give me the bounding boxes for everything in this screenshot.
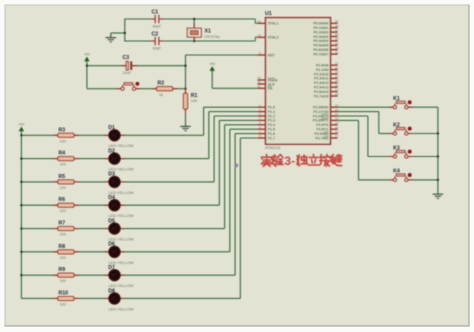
svg-text:24: 24 bbox=[335, 75, 339, 79]
svg-text:39: 39 bbox=[335, 20, 339, 24]
svg-text:100: 100 bbox=[60, 302, 66, 306]
svg-text:R8: R8 bbox=[59, 244, 66, 250]
svg-text:LED-YELLOW: LED-YELLOW bbox=[109, 306, 134, 311]
svg-text:38: 38 bbox=[335, 24, 339, 28]
svg-text:25: 25 bbox=[335, 79, 339, 83]
svg-text:R2: R2 bbox=[158, 80, 165, 86]
svg-text:37: 37 bbox=[335, 28, 339, 32]
svg-text:P0.0/AD0: P0.0/AD0 bbox=[313, 22, 328, 26]
svg-text:R4: R4 bbox=[59, 151, 66, 157]
svg-text:P2.0/A8: P2.0/A8 bbox=[316, 64, 329, 68]
svg-text:P2.5/A13: P2.5/A13 bbox=[314, 86, 329, 90]
svg-text:12: 12 bbox=[335, 112, 339, 116]
svg-text:27: 27 bbox=[335, 88, 339, 92]
svg-text:36: 36 bbox=[335, 33, 339, 37]
svg-text:P3.5/T1: P3.5/T1 bbox=[316, 128, 328, 132]
svg-text:D2: D2 bbox=[108, 148, 115, 154]
svg-text:P2.3/A11: P2.3/A11 bbox=[314, 77, 328, 81]
svg-text:30pF: 30pF bbox=[153, 25, 162, 29]
svg-text:D6: D6 bbox=[108, 242, 115, 248]
svg-text:22: 22 bbox=[335, 66, 339, 70]
svg-text:P3.1/TXD: P3.1/TXD bbox=[313, 110, 329, 114]
svg-text:P0.6/AD6: P0.6/AD6 bbox=[313, 48, 328, 52]
svg-text:13: 13 bbox=[335, 117, 339, 121]
svg-text:P0.3/AD3: P0.3/AD3 bbox=[313, 35, 328, 39]
svg-text:14: 14 bbox=[335, 121, 339, 125]
svg-text:P3.3/INT1: P3.3/INT1 bbox=[313, 119, 329, 123]
svg-text:CRYSTAL: CRYSTAL bbox=[204, 35, 220, 39]
svg-text:U1: U1 bbox=[265, 11, 272, 17]
svg-text:D3: D3 bbox=[108, 172, 115, 178]
svg-text:+5V: +5V bbox=[209, 62, 216, 66]
svg-text:D8: D8 bbox=[108, 288, 115, 294]
svg-text:5: 5 bbox=[259, 121, 261, 125]
svg-text:X1: X1 bbox=[205, 28, 211, 34]
svg-text:P2.7/A15: P2.7/A15 bbox=[314, 94, 329, 98]
svg-text:30pF: 30pF bbox=[153, 47, 162, 51]
svg-text:RST: RST bbox=[268, 53, 276, 57]
svg-text:P2.1/A9: P2.1/A9 bbox=[316, 68, 329, 72]
svg-text:10k: 10k bbox=[191, 99, 197, 103]
svg-text:9: 9 bbox=[259, 51, 261, 55]
svg-text:P0.1/AD1: P0.1/AD1 bbox=[313, 26, 328, 30]
svg-text:23: 23 bbox=[335, 70, 339, 74]
svg-text:P1.0: P1.0 bbox=[268, 106, 275, 110]
svg-text:C2: C2 bbox=[152, 31, 159, 37]
svg-text:3: 3 bbox=[259, 112, 261, 116]
svg-text:P0.7/AD7: P0.7/AD7 bbox=[313, 52, 328, 56]
svg-text:P1.5: P1.5 bbox=[268, 128, 275, 132]
svg-text:8: 8 bbox=[259, 134, 261, 138]
svg-text:11: 11 bbox=[335, 108, 338, 112]
svg-text:21: 21 bbox=[335, 61, 339, 65]
svg-text:18: 18 bbox=[257, 34, 261, 38]
svg-text:100: 100 bbox=[60, 186, 66, 190]
svg-text:P3.7/RD: P3.7/RD bbox=[315, 136, 329, 140]
svg-text:AT89C51: AT89C51 bbox=[265, 146, 281, 150]
svg-text:28: 28 bbox=[335, 92, 339, 96]
svg-text:4: 4 bbox=[259, 117, 261, 121]
svg-text:P2.2/A10: P2.2/A10 bbox=[314, 72, 329, 76]
svg-text:C3: C3 bbox=[123, 55, 130, 61]
svg-text:C1: C1 bbox=[152, 9, 159, 15]
svg-text:P2.6/A14: P2.6/A14 bbox=[314, 90, 329, 94]
svg-text:P1.6: P1.6 bbox=[268, 132, 275, 136]
svg-text:R10: R10 bbox=[59, 290, 69, 296]
svg-text:D1: D1 bbox=[108, 125, 115, 131]
svg-text:P3.4/T0: P3.4/T0 bbox=[316, 123, 328, 127]
svg-text:P0.4/AD4: P0.4/AD4 bbox=[313, 39, 328, 43]
svg-text:XTAL2: XTAL2 bbox=[268, 36, 279, 40]
svg-text:XTAL1: XTAL1 bbox=[268, 22, 279, 26]
svg-text:10uF: 10uF bbox=[123, 71, 132, 75]
svg-text:6: 6 bbox=[259, 125, 261, 129]
svg-text:P1.7: P1.7 bbox=[268, 136, 275, 140]
svg-text:34: 34 bbox=[335, 42, 339, 46]
svg-text:EA: EA bbox=[268, 87, 273, 91]
svg-text:R9: R9 bbox=[59, 267, 66, 273]
svg-text:P1.1: P1.1 bbox=[268, 110, 275, 114]
svg-text:D4: D4 bbox=[108, 195, 115, 201]
svg-text:3-: 3- bbox=[284, 154, 295, 168]
svg-text:16: 16 bbox=[335, 130, 339, 134]
svg-text:R3: R3 bbox=[59, 127, 66, 133]
svg-text:100: 100 bbox=[60, 139, 66, 143]
svg-text:R6: R6 bbox=[59, 197, 66, 203]
svg-text:+5V: +5V bbox=[84, 52, 91, 56]
svg-text:2: 2 bbox=[259, 108, 261, 112]
svg-text:P2.4/A12: P2.4/A12 bbox=[314, 81, 329, 85]
svg-text:100: 100 bbox=[60, 163, 66, 167]
svg-text:R5: R5 bbox=[59, 174, 66, 180]
svg-text:D7: D7 bbox=[108, 265, 115, 271]
svg-text:R7: R7 bbox=[59, 221, 66, 227]
svg-text:15: 15 bbox=[335, 125, 339, 129]
svg-text:P1.4: P1.4 bbox=[268, 123, 275, 127]
svg-text:10: 10 bbox=[335, 103, 339, 107]
svg-text:17: 17 bbox=[335, 134, 339, 138]
svg-text:33: 33 bbox=[335, 46, 339, 50]
svg-text:100: 100 bbox=[60, 256, 66, 260]
svg-text:P3.6/WR: P3.6/WR bbox=[314, 132, 328, 136]
svg-text:100: 100 bbox=[60, 233, 66, 237]
svg-text:32: 32 bbox=[335, 50, 339, 54]
svg-text:P3.2/INT0: P3.2/INT0 bbox=[313, 114, 329, 118]
svg-text:1k: 1k bbox=[159, 93, 163, 97]
svg-text:26: 26 bbox=[335, 83, 339, 87]
svg-text:100: 100 bbox=[60, 279, 66, 283]
svg-text:31: 31 bbox=[257, 85, 261, 89]
svg-text:P0.5/AD5: P0.5/AD5 bbox=[313, 44, 328, 48]
svg-text:35: 35 bbox=[335, 37, 339, 41]
svg-text:19: 19 bbox=[257, 20, 261, 24]
svg-text:7: 7 bbox=[259, 130, 261, 134]
svg-text:100: 100 bbox=[60, 209, 66, 213]
svg-text:P3.0/RXD: P3.0/RXD bbox=[313, 106, 329, 110]
svg-text:P0.2/AD2: P0.2/AD2 bbox=[313, 30, 328, 34]
svg-text:D5: D5 bbox=[108, 218, 115, 224]
svg-text:1: 1 bbox=[259, 103, 261, 107]
svg-text:P1.2: P1.2 bbox=[268, 114, 275, 118]
svg-text:+5V: +5V bbox=[18, 122, 25, 126]
svg-text:P1.3: P1.3 bbox=[268, 119, 275, 123]
